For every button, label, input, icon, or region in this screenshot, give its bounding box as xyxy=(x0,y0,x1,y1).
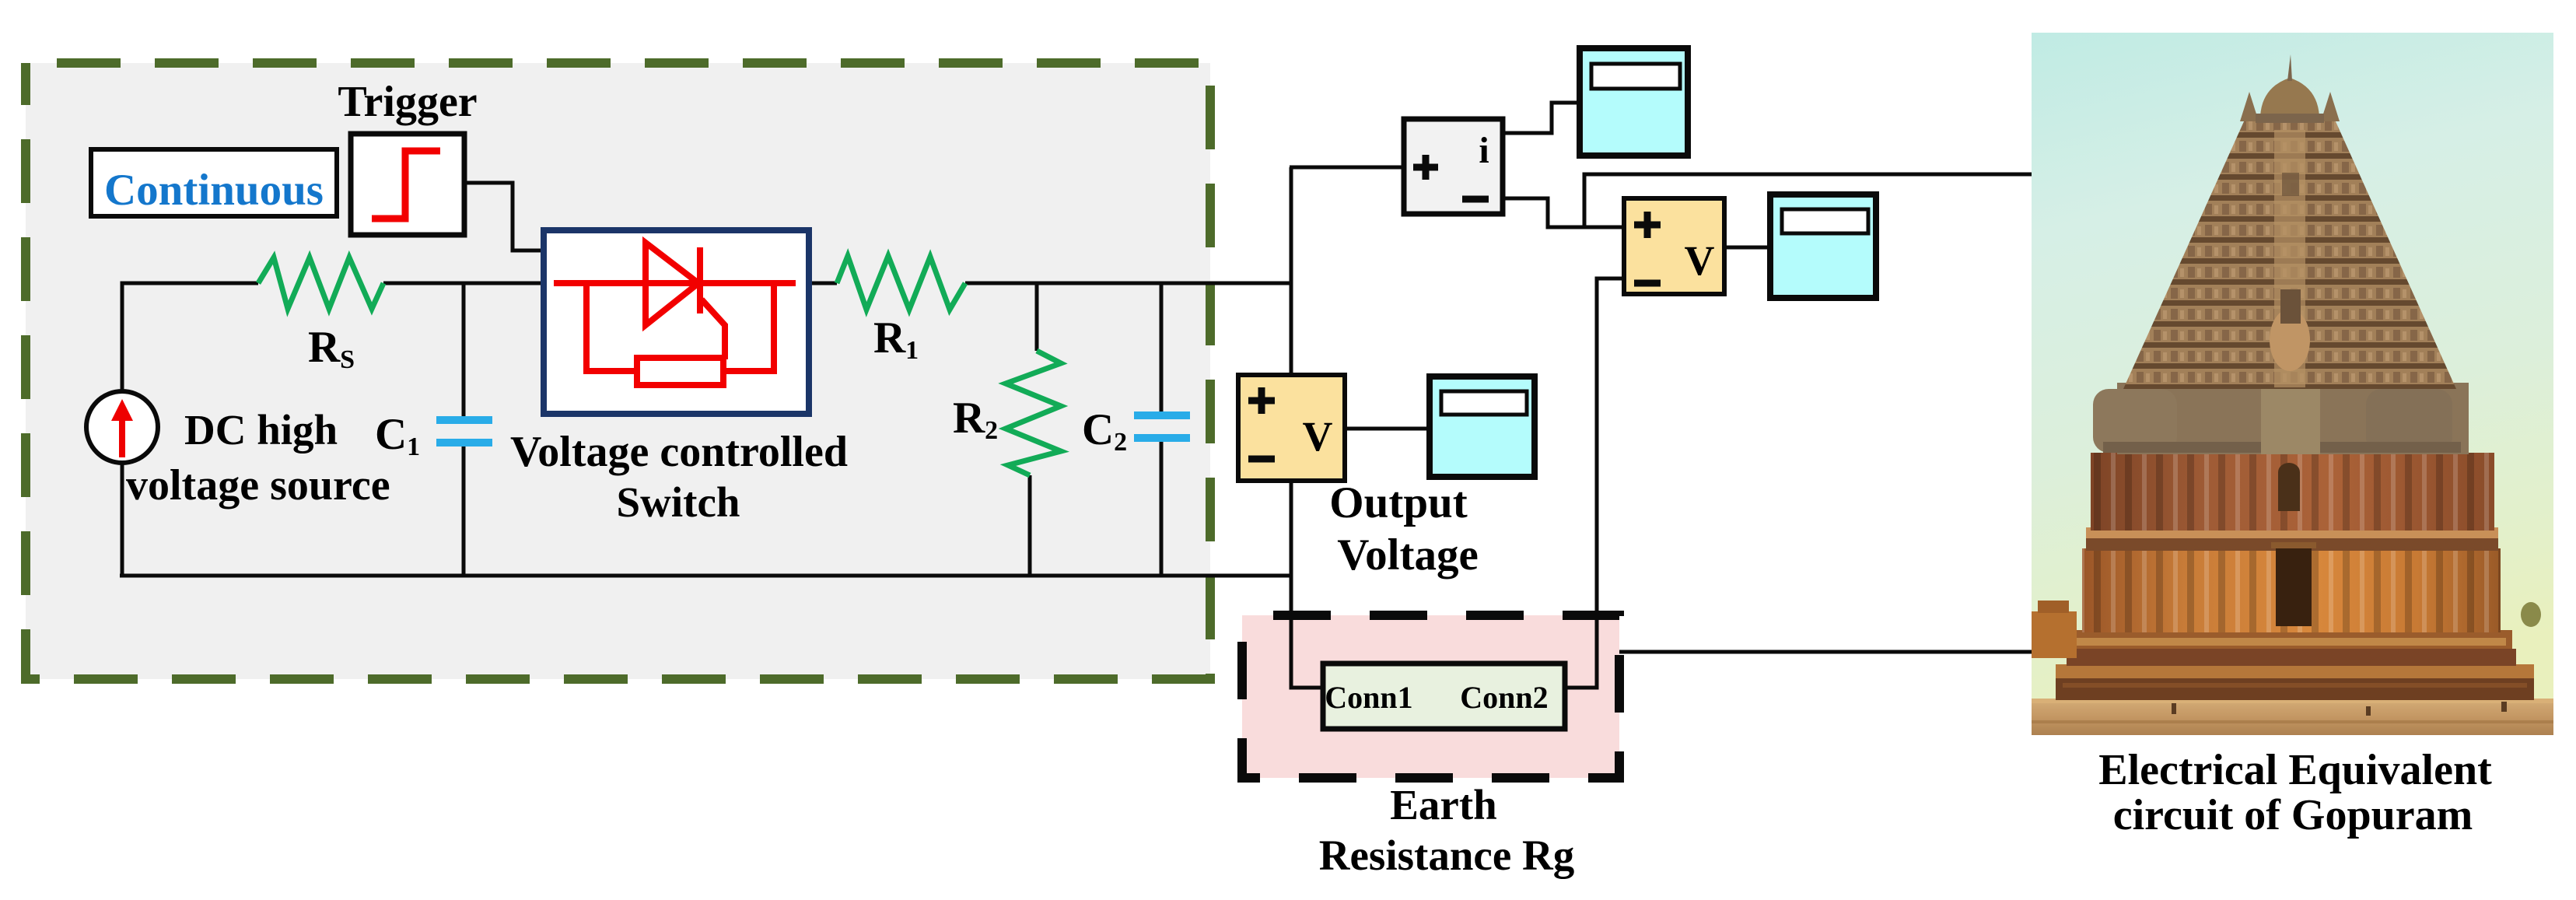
gopuram photo xyxy=(2032,33,2553,735)
wire: C1 branch top xyxy=(462,283,466,417)
svg-text:voltage source: voltage source xyxy=(126,461,390,510)
wire: tee vertical to ammeter level and voltmeter V2 xyxy=(1290,167,1293,375)
voltmeter V1 xyxy=(1624,198,1724,294)
snubber resistor xyxy=(637,358,723,385)
wire: top line to gopuram xyxy=(1584,174,2032,227)
wire: voltmeter V1 minus down to Conn2 xyxy=(1565,278,1624,688)
connection ports block Conn1 Conn2 xyxy=(1323,664,1565,729)
impulse generator subsystem (green dashed box) xyxy=(26,63,1210,679)
wire: ammeter output to scope1 xyxy=(1503,103,1580,133)
svg-text:Resistance Rg: Resistance Rg xyxy=(1319,832,1574,879)
top tier horns xyxy=(2240,92,2259,121)
cornice between storeys xyxy=(2086,527,2498,540)
svg-text:Earth: Earth xyxy=(1390,781,1497,828)
wire: C1 branch bottom xyxy=(462,446,466,576)
scope 1 xyxy=(1580,48,1688,156)
trigger step block xyxy=(351,134,464,235)
voltage controlled switch block xyxy=(544,230,809,414)
powergui Continuous block xyxy=(91,149,337,216)
svg-text:Voltage controlled: Voltage controlled xyxy=(510,428,848,476)
svg-text:V: V xyxy=(1303,413,1333,460)
right bush xyxy=(2521,602,2541,627)
wire: voltmeter V2 to scope3 xyxy=(1345,427,1430,431)
central band of pyramid xyxy=(2274,130,2305,387)
wire: C2 branch bottom xyxy=(1160,442,1164,576)
wire: bottom rail xyxy=(120,574,1291,578)
resistor Rs xyxy=(258,257,383,309)
pyramid tower xyxy=(2123,120,2456,389)
scope 3 xyxy=(1430,376,1535,477)
thyristor main conduction wire xyxy=(554,280,796,286)
wire: DC source top to Rs xyxy=(122,283,258,391)
wire: Rs to switch xyxy=(383,282,554,285)
thyristor anode triangle xyxy=(646,243,698,325)
snubber branch right wire xyxy=(723,283,774,371)
svg-text:circuit of Gopuram: circuit of Gopuram xyxy=(2113,791,2473,839)
upper window of tower xyxy=(2282,173,2299,196)
capacitor C2 xyxy=(1134,411,1190,442)
capacitor C1 xyxy=(436,416,492,446)
svg-text:V: V xyxy=(1685,237,1715,284)
snubber branch left wire xyxy=(586,283,637,371)
dome xyxy=(2260,78,2319,122)
resistor R2 xyxy=(1006,351,1061,475)
upper storey xyxy=(2091,453,2494,531)
thyristor gate lead xyxy=(702,299,725,359)
resistor R1 xyxy=(837,256,965,310)
svg-text:Electrical Equivalent: Electrical Equivalent xyxy=(2098,746,2492,794)
parapet row with corner pavilions xyxy=(2117,383,2469,454)
main door with grill xyxy=(2276,548,2312,626)
wire: R2 branch top xyxy=(1035,283,1039,351)
wire: DC source bottom to rail xyxy=(121,463,124,576)
wire: trigger to switch gate xyxy=(464,183,548,250)
svg-text:Continuous: Continuous xyxy=(104,166,324,215)
lower storey xyxy=(2082,548,2501,632)
wire: R2 branch bottom xyxy=(1028,475,1032,576)
ground xyxy=(2032,699,2553,735)
wire: voltmeter V1 to scope2 xyxy=(1724,246,1770,250)
wire: R1 to tee junction xyxy=(965,282,1291,285)
scope 2 xyxy=(1770,194,1876,298)
svg-text:DC high: DC high xyxy=(184,406,338,454)
left shrine xyxy=(2032,611,2077,658)
thyristor cathode bar xyxy=(697,247,703,313)
svg-text:Conn1: Conn1 xyxy=(1325,680,1412,715)
wire: C2 branch top xyxy=(1160,283,1164,413)
platform steps xyxy=(2056,664,2534,678)
switch block outline xyxy=(544,230,809,414)
base moldings xyxy=(2070,630,2512,650)
svg-text:Switch: Switch xyxy=(617,478,740,526)
svg-text:i: i xyxy=(1479,130,1489,171)
wire: ammeter minus to voltmeter V1 plus xyxy=(1503,198,1624,227)
wire: switch to R1 xyxy=(796,282,837,285)
svg-text:Output: Output xyxy=(1329,478,1467,527)
upper storey window xyxy=(2278,472,2300,511)
DC high voltage source xyxy=(86,391,158,463)
svg-text:Voltage: Voltage xyxy=(1337,531,1479,580)
small figures on ground xyxy=(2172,703,2176,714)
svg-text:Trigger: Trigger xyxy=(338,78,477,126)
svg-text:Conn2: Conn2 xyxy=(1460,680,1548,715)
wire: voltmeter V2 bottom to Conn1 xyxy=(1291,481,1323,688)
current measurement block i xyxy=(1404,119,1503,214)
wire: earth box to gopuram xyxy=(1619,650,2032,654)
wire: to ammeter plus xyxy=(1290,166,1404,170)
earth resistance subsystem (pink dashed box) xyxy=(1242,615,1619,778)
voltmeter V2 output voltage xyxy=(1238,375,1345,481)
